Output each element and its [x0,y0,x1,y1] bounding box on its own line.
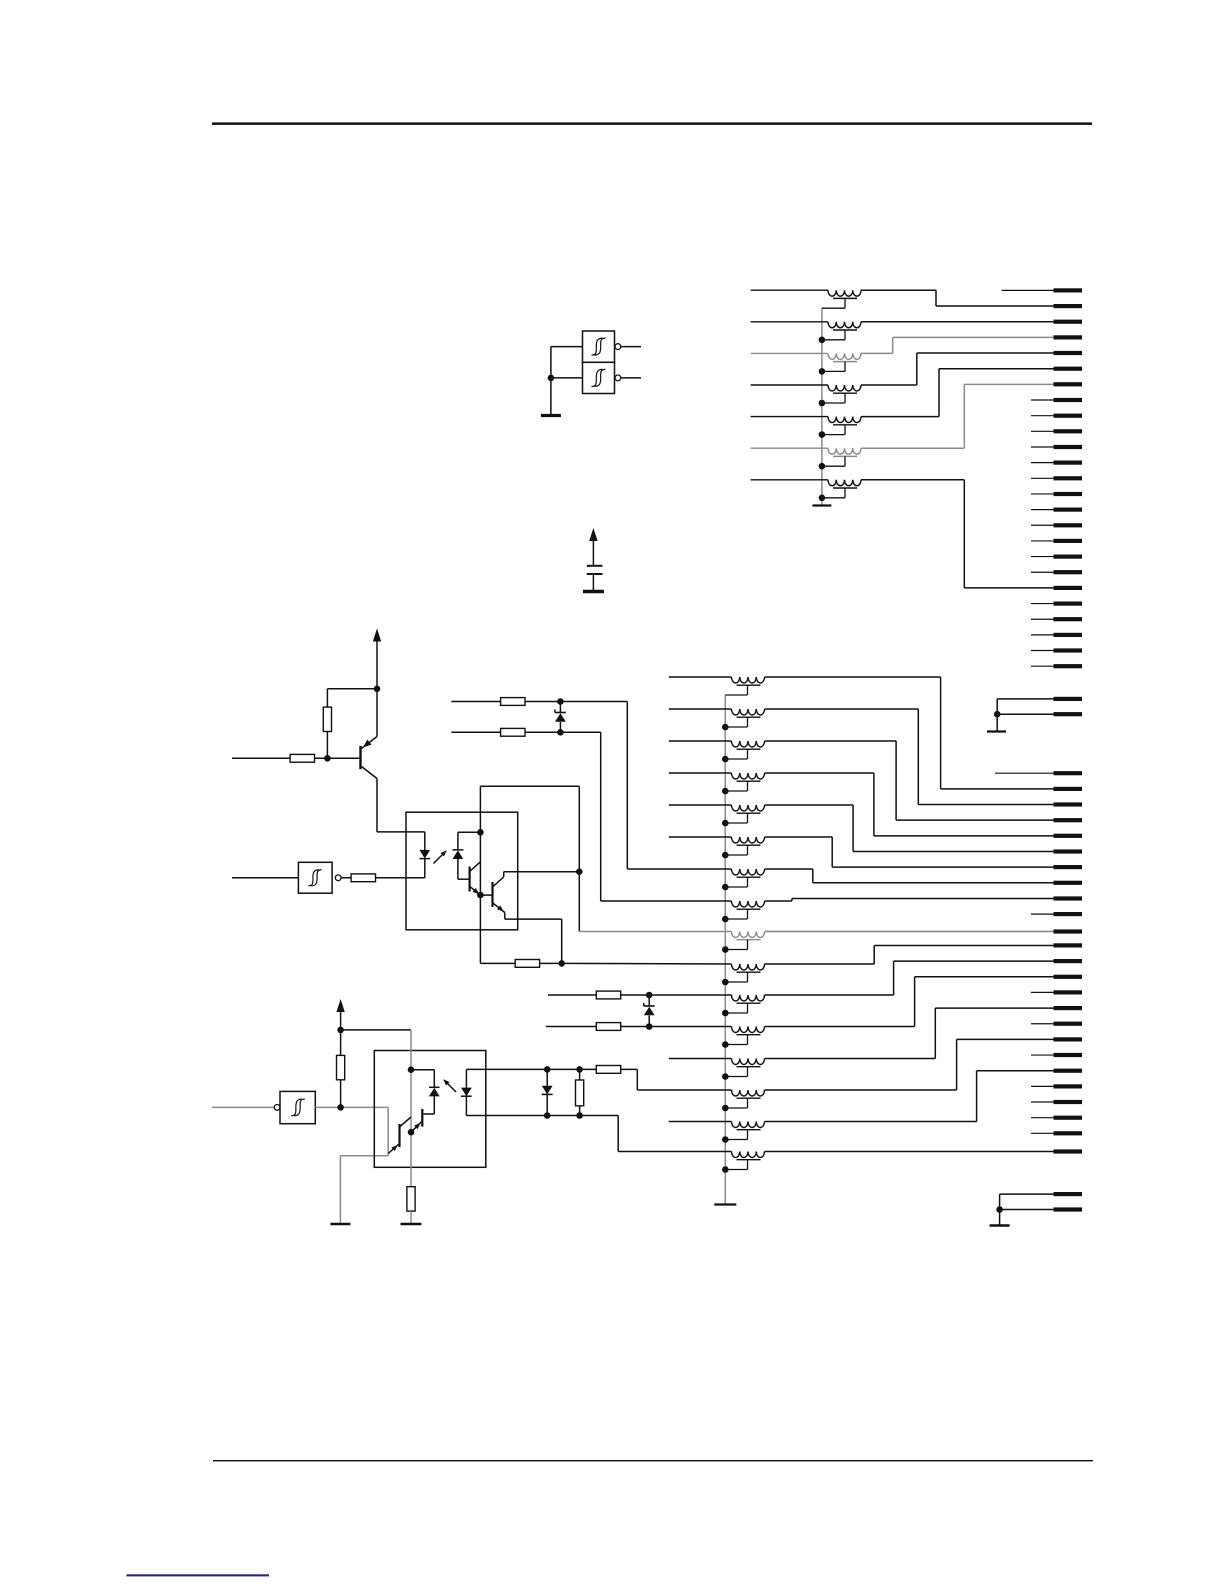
node mid bus junction L13 [722,852,729,859]
wire elbow to L14 row [626,702,628,870]
top rule [212,122,1092,125]
choke L11 [732,773,765,779]
connector pin J2-7 [1054,865,1083,869]
node OC1 emitter/base junction [477,892,484,899]
node bus junction L4 [819,400,826,407]
node VCC3 junction [337,1027,344,1034]
wire choke L15 center tap [747,909,749,919]
ground C1 [583,590,604,593]
wire choke L11 left stub [669,772,732,774]
wire L23 to pin 25 lower [765,1151,1054,1153]
choke L7 [828,480,861,486]
node mid bus junction L14 [722,884,729,891]
choke L5 [828,417,861,423]
ground U1 inputs [541,414,561,417]
wire OC2 out bottom rail [466,1115,618,1117]
ground upper choke bus [812,504,831,506]
connector pin J1-18 [1054,555,1083,559]
node base junction [324,755,331,762]
middle choke common bus wire [724,695,726,1204]
connector pin J2-G2 [1054,1207,1083,1211]
choke L6 [828,448,861,454]
ground J2 shield [990,1224,1010,1226]
resistor R1 [290,754,314,762]
resistor R2 [323,707,331,731]
wire choke L20 left stub [669,1058,732,1060]
connector pin J2-6 [1054,849,1083,853]
connector pin J2-2 [1054,787,1083,791]
connector pin J1-3 [1054,320,1083,324]
connector pin J2-1 [1054,771,1083,775]
node mid bus junction L12 [722,820,729,827]
wire U1A out [621,346,641,348]
node VCC/R junction [374,686,381,693]
connector pin J1-G1 [1054,697,1083,701]
connector pin J2-13 [1054,959,1083,963]
node zener D2 bottom [646,1023,653,1030]
node D3 bottom [544,1112,551,1119]
wire RX line A [548,994,596,996]
diode D3 [546,1069,548,1085]
wire choke L18 center tap [747,1003,749,1013]
choke L3 [828,353,861,359]
wire choke L14 center tap [747,877,749,887]
wire L16 feed [579,931,731,933]
connector pin J2-11 [1054,929,1083,933]
wire L22 to pin 20 lower [765,1121,977,1123]
wire Q1 base input [232,757,290,759]
wire choke L12 center tap [747,813,749,823]
node mid bus junction L15 [722,916,729,923]
wire L7 to pin 20 [861,479,964,481]
choke L22 [732,1122,765,1128]
wire choke L7 center tap [844,488,846,498]
connector pin J1-16 [1054,523,1083,527]
wire L18 to pin 13 lower [765,994,894,996]
resistor R12 [596,1066,620,1074]
choke L4 [828,385,861,391]
connector pin J1-6 [1054,367,1083,371]
resistor R10 [407,1187,415,1211]
diode D2 zener [648,995,650,1007]
OC2 light arrow [445,1081,457,1093]
wire L10 to pin 4 lower [765,740,897,742]
choke L2 [828,322,861,328]
wire choke L22 left stub [669,1121,732,1123]
node mid bus junction L16 [722,946,729,953]
wire L21 to pin 18 lower [765,1089,957,1091]
wire OC1 collector rail [479,786,481,963]
schmitt inverter U2 [298,862,332,893]
transistor OC1 Q darlington 1 [469,867,471,892]
wire choke L16 center tap [747,940,749,950]
choke L10 [732,741,765,747]
wire U3 input [212,1106,274,1108]
wire VCC to R2 [327,688,377,690]
connector pin J2-9 [1054,896,1083,900]
connector pin J2-17 [1054,1022,1083,1026]
node D3 top [544,1066,551,1073]
connector pin J1-8 [1054,398,1083,402]
wire choke L1 center tap [844,298,846,308]
connector pin J1-12 [1054,461,1083,465]
wire choke L17 center tap [747,972,749,982]
connector pin J2-10 [1054,912,1083,916]
transistor OC2 Q darlington 1 [421,1109,423,1127]
connector pin J1-20 [1054,586,1083,590]
wire choke L5 left lead [751,416,828,418]
vcc3 [336,999,344,1012]
wire VCC3 to OC2 [341,1029,411,1031]
connector pin J2-16 [1054,1006,1083,1010]
connector pin J1-21 [1054,602,1083,606]
choke L1 [828,290,861,296]
diode OC1 LED [424,832,426,850]
transistor OC2 Q darlington 2 [398,1124,400,1147]
connector pin J1-23 [1054,633,1083,637]
transistor OC1 Q darlington 2 [491,882,493,907]
node mid bus junction L20 [722,1073,729,1080]
choke L9 [732,709,765,715]
node J1 ground junction [994,711,1001,718]
connector pin J1-25 [1054,664,1083,668]
wire U2 out [341,877,351,879]
wire L8 to pin 2 lower [765,676,941,678]
node mid bus junction L21 [722,1105,729,1112]
connector pin J2-12 [1054,943,1083,947]
node mid bus junction L9 [722,724,729,731]
upper choke common bus wire [821,308,823,504]
wire R9 top [340,1030,342,1056]
node U3 out junction [337,1104,344,1111]
choke L21 [732,1090,765,1096]
choke L17 [732,964,765,970]
node OC1 collector top [477,829,484,836]
connector pin J1-G2 [1054,712,1083,716]
node zener D1 top [557,698,564,705]
wire Q2 collector [504,871,580,873]
choke L12 [732,805,765,811]
wire Q2 emitter [504,913,506,920]
connector pin J1-13 [1054,476,1083,480]
connector pin J1-15 [1054,508,1083,512]
wire choke L6 center tap [844,456,846,466]
wire choke L8 left stub [669,676,732,678]
connector pin J1-2 [1054,304,1083,308]
ground OC2 emitter [401,1223,422,1226]
bottom rule [213,1460,1093,1461]
wire R9 bottom [340,1080,342,1108]
choke L15 [732,901,765,907]
ground middle choke bus [714,1203,736,1205]
wire TX line A [451,701,500,703]
wire elbow to L15 row [578,786,580,931]
node bus junction L3 [819,368,826,375]
wire choke L2 center tap [844,330,846,340]
wire choke L7 left lead [751,479,828,481]
connector pin J1-4 [1054,335,1083,339]
connector pin J1-9 [1054,414,1083,418]
choke L19 [732,1027,765,1033]
wire R2 bottom [326,732,328,759]
diode D1 zener [559,702,561,714]
wire choke L5 center tap [844,425,846,435]
wire U3 out [315,1106,388,1108]
choke L23 [732,1152,765,1158]
wire L17 feed [562,962,732,965]
wire elbow to L23 row [617,1116,619,1152]
resistor R3 [351,874,375,882]
node mid bus junction L23 [722,1166,729,1173]
optocoupler OC2 body [374,1051,486,1168]
node mid bus junction L18 [722,1010,729,1017]
schmitt inverter U1A [583,331,615,362]
choke L13 [732,837,765,843]
ground OC2 input side [330,1223,350,1226]
wire choke L9 left stub [669,708,732,710]
wire J1 ground pins [997,698,1053,700]
wire choke L19 center tap [747,1035,749,1045]
connector pin J2-14 [1054,975,1083,979]
wire L20 to pin 16 lower [765,1058,936,1060]
connector pin J2-4 [1054,818,1083,822]
node mid bus junction L22 [722,1136,729,1143]
wire choke L4 center tap [844,393,846,403]
wire elbow to L21 row [636,1069,638,1090]
node OC2 rail top [408,1066,415,1073]
wire TX line B [451,731,500,733]
wire choke L3 center tap [844,362,846,372]
wire U3 out down [387,1107,389,1155]
connector pin J2-24 [1054,1131,1083,1135]
choke L18 [732,995,765,1001]
wire choke L11 center tap [747,781,749,791]
wire L16 to pin 11 lower [765,931,1054,933]
resistor R9 [337,1055,345,1079]
connector pin J1-24 [1054,648,1083,652]
connector pin J1-19 [1054,570,1083,574]
resistor R6 [501,728,525,736]
wire RX line B [546,1026,597,1028]
resistor R4 [515,960,539,968]
connector pin J1-22 [1054,617,1083,621]
connector pin J2-3 [1054,802,1083,806]
ground J1 shield [987,730,1006,732]
wire choke L21 center tap [747,1098,749,1108]
connector pin J1-14 [1054,492,1083,496]
node bus junction L7 [819,495,826,502]
node mid bus junction L19 [722,1041,729,1048]
node mid bus junction L10 [722,756,729,763]
wire OC2 center rail [410,1030,412,1187]
wire L2 to pin 3 [861,321,1054,323]
optocoupler OC1 body [406,812,518,930]
wire OC2 out top rail [466,1068,596,1070]
wire Q1 collector down [376,779,378,832]
wire L12 to pin 6 lower [765,804,854,806]
schmitt inverter U3 [274,1105,280,1111]
wire choke L22 center tap [747,1130,749,1140]
wire L6 to pin 7 [861,447,964,449]
wire L15 to pin 9 lower [765,900,792,902]
connector pin J2-22 [1054,1100,1083,1104]
choke L8 [732,677,765,683]
wire choke L1 left lead [751,289,828,291]
transistor Q1 PNP [359,746,361,769]
OC1 light arrow [434,852,446,864]
wire choke L4 left lead [751,384,828,386]
wire L11 to pin 5 lower [765,772,874,774]
connector pin J1-7 [1054,382,1083,386]
choke L20 [732,1059,765,1065]
connector pin J1-17 [1054,539,1083,543]
node bus junction L2 [819,337,826,344]
wire OC1 top rail [480,785,579,787]
connector pin J2-8 [1054,881,1083,885]
wire choke L10 left stub [669,740,732,742]
connector pin J2-25 [1054,1149,1083,1153]
node R4 junction [558,960,565,967]
wire choke L13 center tap [747,845,749,855]
resistor R5 [501,698,525,706]
connector pin J1-1 [1054,288,1083,292]
wire L4 to pin 5 [861,384,917,386]
wire L14 to pin 8 lower [765,868,813,870]
wire R3 to OC1 LED [375,877,424,879]
resistor R8 [596,1023,620,1031]
vcc2 [373,629,381,642]
wire U1B input [551,377,583,379]
connector pin J2-20 [1054,1069,1083,1073]
connector pin J1-10 [1054,429,1083,433]
wire choke L3 left lead [751,352,828,354]
node bus junction L6 [819,463,826,470]
wire U2 input [232,877,298,879]
connector pin J2-19 [1054,1053,1083,1057]
node R11 top [576,1066,583,1073]
connector pin J1-11 [1054,445,1083,449]
node mid bus junction L11 [722,788,729,795]
choke L16 [732,932,765,938]
wire choke L8 center tap [747,685,749,695]
node OC2 emitter junction [408,1129,415,1136]
resistor R11 [579,1069,581,1080]
resistor R7 [596,991,620,999]
node U1 inputs junction [548,375,555,382]
connector pin J2-15 [1054,990,1083,994]
wire L13 to pin 7 lower [765,836,833,838]
connector pin J2-G1 [1054,1192,1083,1196]
wire J2 ground pins [1000,1193,1054,1195]
wire choke L9 center tap [747,717,749,727]
node R11 bottom [576,1112,583,1119]
connector pin J2-5 [1054,834,1083,838]
wire L19 to pin 14 lower [765,1026,915,1028]
connector pin J2-21 [1054,1084,1083,1088]
node Q2 collector junction [576,868,583,875]
node bus junction L5 [819,431,826,438]
diode OC1 photodiode [452,849,463,851]
wire choke L20 center tap [747,1067,749,1077]
choke L14 [732,869,765,875]
wire L3 to pin 4 [861,352,893,354]
node zener D2 top [646,992,653,999]
wire L9 to pin 3 lower [765,708,919,710]
wire U1B out [621,377,641,379]
wire L1 to pin 2 [861,289,936,291]
capacitor C1 [587,565,603,567]
wire L5 to pin 6 [861,416,939,418]
wire R4 line [480,962,515,964]
wire R2 top [326,689,328,707]
footer link underline [127,1574,270,1576]
wire choke L23 center tap [747,1160,749,1170]
wire choke L6 left lead [751,447,828,449]
wire choke L13 left stub [669,836,732,838]
vcc arrow symbol [589,528,597,541]
node mid bus junction L17 [722,979,729,986]
diode OC2 photodiode [411,1069,434,1071]
node J2 ground junction [996,1206,1003,1213]
wire choke L10 center tap [747,749,749,759]
diode OC2 LED [465,1069,467,1087]
wire U1A input [551,346,583,348]
connector pin J1-5 [1054,351,1083,355]
node zener D1 bottom [557,729,564,736]
connector pin J2-18 [1054,1037,1083,1041]
resistor R11v [576,1080,584,1106]
wire choke L12 left stub [669,804,732,806]
wire choke L2 left lead [751,321,828,323]
wire L17 to pin 12 lower [765,963,875,965]
connector pin J2-23 [1054,1116,1083,1120]
wire elbow to L15 row [600,732,602,901]
schmitt inverter U1B [583,362,615,393]
